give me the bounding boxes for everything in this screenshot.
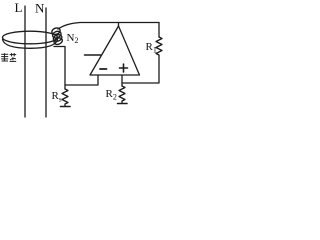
label cixin (magnetic core) drawn strokes bbox=[1, 53, 16, 61]
wire winding bottom lead to node A bbox=[54, 47, 65, 86]
minus input sign bbox=[100, 68, 107, 70]
resistor R1 bbox=[156, 37, 162, 56]
svg-text:R1: R1 bbox=[146, 41, 157, 55]
wire from winding top to top rail bbox=[58, 23, 159, 30]
wire op-amp output stub bbox=[118, 23, 120, 28]
resistor Rs bbox=[62, 89, 68, 106]
stub on left side of op-amp bbox=[85, 54, 101, 56]
ground bar under Rs bbox=[61, 106, 71, 108]
op-amp U1 comparator triangle bbox=[90, 26, 140, 75]
ground bar under R2 bbox=[118, 103, 128, 105]
wire N (neutral conductor through core) bbox=[45, 8, 47, 117]
wire inverting input down from base bbox=[65, 75, 98, 85]
winding N2 (secondary coil on core) bbox=[51, 27, 63, 46]
svg-text:N: N bbox=[35, 1, 45, 16]
wire L (line conductor through core) bbox=[24, 6, 26, 117]
resistor R2 bbox=[119, 86, 125, 103]
wire right rail from top to R1 bbox=[158, 23, 160, 38]
magnetic core toroid bbox=[3, 31, 58, 48]
node B junction (R1 / R2 / non-inverting input) bbox=[121, 83, 123, 86]
wire non-inverting input down from base bbox=[121, 75, 123, 83]
svg-text:R2: R2 bbox=[106, 88, 117, 102]
svg-text:Rs: Rs bbox=[52, 90, 62, 104]
node A junction (winding / Rs / inverting input) bbox=[64, 85, 66, 89]
plus input sign bbox=[120, 64, 128, 72]
svg-text:L: L bbox=[15, 0, 23, 15]
wire feedback bottom rail bbox=[122, 56, 159, 83]
svg-text:N2: N2 bbox=[67, 32, 79, 45]
